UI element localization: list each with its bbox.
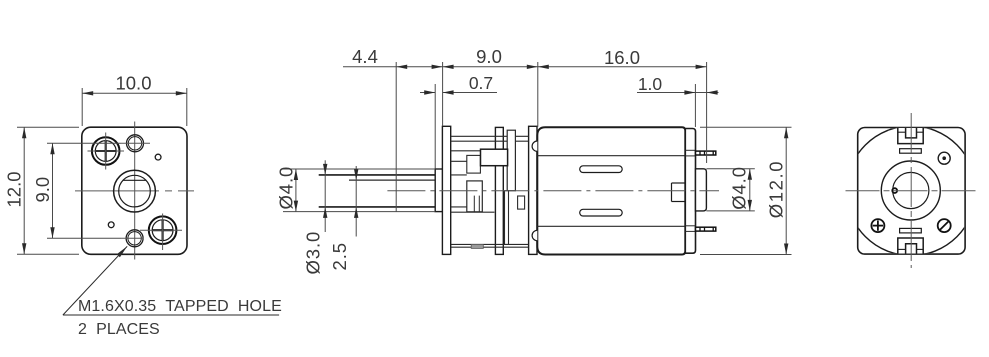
rear brush bump: [672, 183, 686, 202]
can circle clipped: [846, 126, 976, 256]
screw top-left outer: [92, 137, 120, 165]
screw top-left phillips cross: [96, 150, 116, 152]
output shaft top/bottom: [319, 175, 436, 207]
screw top-left crosshair: [88, 150, 125, 152]
shaft end dot: [892, 188, 897, 193]
dimension 9.0 (hole spacing): [47, 143, 121, 238]
rear endcap: [685, 129, 695, 254]
screw bottom-right crosshair: [140, 229, 182, 231]
terminal slot lines in endcap: [685, 150, 695, 231]
screw bottom-right inner: [152, 220, 173, 241]
tapped hole bottom crosshair: [121, 237, 144, 239]
svg-text:M1.6X0.35 TAPPED HOLE: M1.6X0.35 TAPPED HOLE: [78, 298, 282, 315]
can flange bump upper: [532, 141, 537, 151]
dimension 16.0: [538, 66, 707, 68]
dimension D12.0: [700, 127, 792, 254]
central output gear hub: [467, 181, 483, 212]
square edge re-stroke across tabs: [896, 127, 925, 129]
top dimension extension lines: [396, 62, 706, 212]
dimension 10.0: [82, 88, 187, 126]
gearbox front plate P1: [442, 126, 450, 254]
big top gear G1: [481, 149, 508, 166]
top small gear: [467, 155, 481, 173]
output shaft hole boss circle: [114, 170, 156, 212]
svg-text:Ø12.0: Ø12.0: [765, 160, 786, 218]
svg-text:0.7: 0.7: [469, 73, 493, 93]
dimension D4.0 left: [283, 169, 435, 212]
terminal top: [696, 151, 716, 155]
bearing plate circle: [881, 161, 940, 220]
gearbox middle plate P2: [495, 127, 503, 254]
rear boss: [696, 169, 707, 211]
svg-text:16.0: 16.0: [604, 47, 640, 68]
pilot hole top-right: [938, 152, 950, 164]
top crimp tab: [898, 128, 923, 144]
vent slot bottom: [900, 228, 922, 233]
screw top-left inner: [95, 141, 116, 162]
dimension 1.0: [637, 92, 719, 94]
bottom tie rod: [451, 243, 529, 245]
tapped hole bottom (M1.6): [126, 230, 143, 247]
horizontal centerline of front view: [75, 190, 194, 192]
leader to tapped hole: [63, 246, 279, 315]
svg-text:2 PLACES: 2 PLACES: [78, 321, 160, 338]
small hole top-right: [155, 154, 161, 160]
lower right gear G3: [518, 196, 525, 209]
bottom crimp tab: [898, 238, 923, 254]
motor can: [537, 127, 685, 254]
vertical centerline of front view: [134, 122, 136, 260]
shaft D-flat line: [349, 179, 435, 181]
front face plate outline: [82, 127, 187, 254]
can flat line bottom: [537, 225, 685, 227]
main centerline of side view: [387, 190, 719, 192]
rear horizontal centerline: [846, 190, 978, 192]
rear vertical centerline: [910, 113, 912, 268]
dimension 9.0 (gearbox): [443, 66, 538, 68]
vent slot top: [900, 149, 922, 154]
output shaft circle: [119, 175, 151, 207]
svg-text:12.0: 12.0: [3, 171, 24, 207]
dimension 4.4: [343, 66, 443, 68]
gear shaft bar lower: [505, 191, 509, 245]
gear shaft bar upper: [507, 130, 515, 191]
dimension 2.5: [355, 166, 357, 237]
can slot upper: [580, 166, 623, 173]
svg-text:10.0: 10.0: [115, 73, 151, 94]
bottom screw tab: [471, 244, 483, 248]
svg-text:Ø4.0: Ø4.0: [276, 166, 297, 210]
svg-text:2.5: 2.5: [329, 242, 350, 270]
gear internals: [451, 136, 529, 247]
shaft D-flat chord: [123, 179, 146, 181]
tapped hole top (M1.6): [127, 135, 144, 152]
gearbox rear plate P3: [529, 126, 537, 254]
svg-text:4.4: 4.4: [352, 46, 378, 67]
inner circle: [893, 172, 929, 208]
can slot lower: [580, 209, 623, 216]
svg-text:9.0: 9.0: [32, 177, 53, 203]
shaft inside gearbox: [451, 174, 467, 176]
small hole bottom-left: [108, 222, 114, 228]
dimension D4.0 right: [706, 169, 754, 211]
top tie rod: [451, 135, 529, 137]
svg-text:1.0: 1.0: [638, 74, 663, 94]
rear outline square: [858, 128, 965, 255]
dimension D3.0: [324, 160, 326, 232]
slotted screw bottom-right: [938, 219, 951, 232]
gear step line bottom: [451, 211, 495, 213]
front bearing boss: [435, 169, 442, 212]
svg-text:Ø3.0: Ø3.0: [302, 231, 323, 275]
screw bottom-right outer: [149, 216, 177, 244]
can flange bump lower: [532, 230, 537, 240]
dimension 0.7: [420, 92, 435, 94]
can flat line top: [537, 155, 685, 157]
terminal bottom: [696, 227, 716, 231]
svg-text:9.0: 9.0: [476, 46, 502, 67]
dimension 12.0: [17, 127, 79, 254]
leader arrowhead: [117, 246, 128, 257]
screw bottom-right phillips cross: [152, 229, 172, 231]
central hub inner lines: [473, 196, 475, 212]
phillips screw bottom-left: [871, 219, 884, 232]
gear step line top: [451, 150, 496, 152]
tapped hole top crosshair: [121, 142, 150, 144]
svg-text:Ø4.0: Ø4.0: [728, 166, 749, 210]
